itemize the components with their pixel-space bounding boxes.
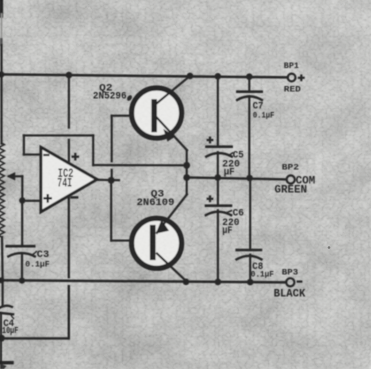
op-amp V- supply - sign xyxy=(70,196,78,198)
wire C3 to bottom rail xyxy=(21,255,23,281)
potentiometer wiper arrow xyxy=(7,172,23,180)
wire bottom left stub xyxy=(0,361,12,364)
node Q3 collector bottom rail junction xyxy=(183,279,190,286)
node C3 bottom rail junction xyxy=(19,278,25,284)
node bottom rail C8 junction xyxy=(247,279,254,286)
binding post BP3 xyxy=(286,278,294,286)
wire V+ supply to op-amp (hop over feedback wire) xyxy=(68,75,70,162)
node mid rail C5 C6 junction xyxy=(215,174,222,181)
wire C5 to mid rail xyxy=(217,152,219,177)
op-amp V+ supply + sign xyxy=(72,153,80,161)
capacitor C6 xyxy=(206,206,232,216)
node bottom rail left end xyxy=(0,277,4,283)
wire output up to Q2 base (hop over feedback wire) xyxy=(112,116,152,181)
label C7 0.1uF xyxy=(253,102,275,121)
label IC2 741 xyxy=(57,167,73,191)
binding post BP1 xyxy=(288,74,296,82)
label BP2 COM GREEN xyxy=(275,163,316,197)
label Q3 2N6109 xyxy=(137,189,175,209)
node top rail left end xyxy=(0,71,4,77)
transistor Q3 2N6109 xyxy=(132,194,187,281)
wire feedback: - input left and over the top xyxy=(24,135,187,165)
capacitor C5 + sign xyxy=(207,137,214,144)
wire top rail to C5 xyxy=(217,76,219,146)
capacitor C7 xyxy=(237,92,262,100)
node op-amp output xyxy=(108,177,115,184)
op-amp inverting input - sign xyxy=(43,154,49,156)
op-amp U1 IC2 741 xyxy=(41,147,97,212)
node + input junction xyxy=(19,197,25,203)
capacitor C5 xyxy=(206,147,232,157)
wire left edge vertical (upper) xyxy=(0,0,3,144)
wire output down to Q3 base xyxy=(111,180,150,240)
wire C7 to mid rail xyxy=(248,96,250,178)
node mid rail C7 C8 junction xyxy=(246,175,253,182)
capacitor C8 xyxy=(237,250,262,259)
label C4 10uF xyxy=(2,318,19,336)
wire mid rail to C6 xyxy=(217,178,219,206)
node top rail Q2 collector junction xyxy=(187,73,194,80)
capacitor C6 + sign xyxy=(207,195,214,202)
label BP3 - BLACK xyxy=(274,268,306,301)
node emitter feedback junction xyxy=(183,162,190,169)
wire left edge below C4 xyxy=(0,315,2,361)
label C3 xyxy=(25,250,49,269)
wire mid rail to C8 xyxy=(249,178,251,250)
op-amp non-inverting input + sign xyxy=(43,194,52,203)
wire C6 to bottom rail xyxy=(217,210,219,282)
wire C8 to bottom rail xyxy=(249,255,251,283)
node top rail C5 branch xyxy=(215,73,222,80)
label C6 220uF xyxy=(222,209,244,238)
node bottom rail C6 junction xyxy=(215,279,222,286)
node top rail V+ branch xyxy=(66,72,73,79)
binding post BP2 xyxy=(287,175,295,183)
label Q2 2N5296 xyxy=(93,82,133,102)
bottom left corner blob xyxy=(0,364,7,369)
wire top positive rail xyxy=(0,74,288,77)
capacitor C4 (left edge, partial) xyxy=(0,280,14,318)
label C5 220uF xyxy=(222,150,244,178)
capacitor C3 xyxy=(7,246,37,256)
potentiometer R (left edge, partial) xyxy=(0,143,4,237)
label BP1 + RED xyxy=(284,61,305,94)
node top rail C7 branch xyxy=(246,73,253,80)
wire op-amp V- down (crosses bottom rail with hop) xyxy=(0,197,69,342)
stray mark speck xyxy=(328,246,331,249)
label C8 0.1uF xyxy=(251,262,274,279)
wire junction to op-amp + input xyxy=(22,200,41,202)
wire junction down to C3 xyxy=(21,201,23,246)
wire wiper to + input junction xyxy=(21,176,23,200)
wire emitter bus vertical xyxy=(186,150,188,194)
transistor Q2 2N5296 xyxy=(132,76,190,150)
wire mid rail emitters to BP2 xyxy=(187,177,286,179)
wire bottom negative rail xyxy=(0,280,286,282)
wire top rail to C7 xyxy=(248,77,250,92)
node emitter mid rail junction xyxy=(183,174,190,181)
wire left edge vertical (below pot to bottom rail) xyxy=(1,237,4,280)
wire op-amp output stub xyxy=(97,179,119,182)
